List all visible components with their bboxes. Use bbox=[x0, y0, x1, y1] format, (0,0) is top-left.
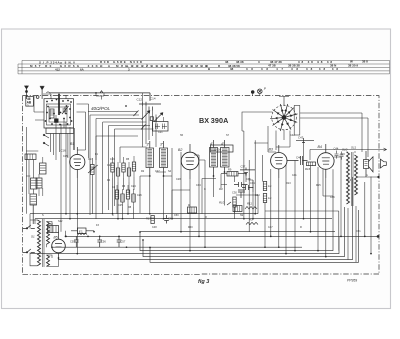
svg-text:Ω: Ω bbox=[27, 103, 29, 107]
IF transformer 4' bbox=[210, 140, 218, 176]
resistor R11 (wirewound zigzag) bbox=[245, 202, 257, 210]
wire: top feed lines bbox=[96, 93, 368, 157]
wire: indicator connections bbox=[242, 106, 368, 153]
wire: B+ bus y232 bbox=[140, 231, 335, 233]
svg-text:B1: B1 bbox=[70, 142, 74, 146]
wire: return loop y256.6 bbox=[143, 207, 345, 257]
svg-text:C25: C25 bbox=[118, 204, 123, 207]
capacitor C49 bbox=[164, 215, 173, 224]
dial lamp P bbox=[251, 87, 266, 95]
aerial input bandfilter (coil box) bbox=[44, 94, 74, 128]
svg-text:C: C bbox=[204, 188, 206, 191]
valve B2 bbox=[178, 144, 199, 179]
resistor group R4-R7 / C18-C22 bbox=[111, 156, 136, 182]
svg-text:C57: C57 bbox=[121, 240, 126, 244]
svg-text:C15: C15 bbox=[63, 155, 68, 158]
IF transformer 4'' bbox=[221, 140, 230, 172]
fuse F2 bbox=[71, 228, 94, 235]
svg-text:3′: 3′ bbox=[147, 143, 150, 147]
svg-text:R10: R10 bbox=[219, 201, 225, 205]
mains transformer T1 secondary HT bbox=[47, 222, 50, 245]
valve B4 bbox=[318, 144, 346, 178]
wire: transformer connections bbox=[30, 220, 94, 266]
mains switch SK2 bbox=[23, 225, 35, 253]
wire: HT bus y214 bbox=[30, 213, 258, 215]
coil S2 bbox=[50, 109, 54, 118]
wire: return loop y259.6 bbox=[59, 177, 353, 260]
wire: bandswitch routing loops bbox=[90, 115, 154, 219]
svg-text:B2: B2 bbox=[178, 148, 182, 152]
svg-text:C44: C44 bbox=[334, 147, 339, 151]
rectifier valve B5 bbox=[52, 233, 66, 258]
svg-text:S11: S11 bbox=[351, 146, 356, 150]
svg-text:C28: C28 bbox=[176, 178, 181, 181]
mains transformer T1 heater winding bbox=[31, 235, 50, 267]
svg-text:C34: C34 bbox=[196, 184, 201, 187]
svg-text:C27: C27 bbox=[155, 170, 160, 173]
svg-text:C46: C46 bbox=[330, 196, 335, 199]
tuning gang C12/C14 bbox=[134, 97, 163, 130]
svg-text:B3: B3 bbox=[269, 148, 273, 152]
capacitor C29/C30 pair bbox=[219, 182, 248, 198]
svg-text:C17: C17 bbox=[88, 158, 93, 161]
svg-text:R14: R14 bbox=[346, 178, 352, 182]
svg-text:R16: R16 bbox=[305, 167, 311, 171]
resistor R17 bbox=[146, 216, 154, 224]
svg-text:m: m bbox=[366, 174, 368, 177]
svg-text:BX 390A: BX 390A bbox=[199, 116, 229, 125]
label 40 Ohm/POL bbox=[88, 106, 137, 111]
svg-text:38: 38 bbox=[230, 67, 234, 71]
resistor R3 zigzag bbox=[246, 218, 258, 225]
svg-text:C50: C50 bbox=[174, 214, 179, 217]
resistor R9 network bbox=[221, 168, 246, 177]
svg-text:C16: C16 bbox=[61, 149, 67, 153]
title block text row 1 bbox=[39, 60, 368, 65]
IF transformer 3'' bbox=[160, 141, 168, 176]
valve B3 bbox=[269, 145, 287, 178]
resistor R19 (WW box) bbox=[233, 206, 242, 212]
wire: output secondary return bbox=[265, 211, 339, 251]
svg-text:R: R bbox=[188, 203, 190, 207]
svg-text:40Ω/POL: 40Ω/POL bbox=[91, 106, 111, 111]
svg-text:R9: R9 bbox=[228, 168, 232, 172]
speaker return wire bbox=[357, 176, 379, 178]
svg-text:38 30 9: 38 30 9 bbox=[348, 64, 358, 68]
resistor R16 bbox=[305, 162, 316, 171]
junction blobs in coil box bbox=[45, 99, 73, 126]
trimmer C6 bbox=[62, 106, 69, 114]
aerial terminal A bbox=[36, 86, 44, 99]
svg-text:R13: R13 bbox=[286, 182, 291, 185]
svg-text:C33: C33 bbox=[255, 194, 260, 197]
output transformer S10/S11 bbox=[342, 146, 358, 207]
svg-text:C52: C52 bbox=[48, 222, 53, 226]
capacitor C52/C53 bbox=[48, 222, 59, 233]
valve B1 bbox=[61, 142, 96, 178]
svg-text:C42: C42 bbox=[290, 134, 295, 137]
svg-text:C24: C24 bbox=[131, 185, 136, 188]
svg-text:R: R bbox=[205, 216, 207, 219]
IF transformer top strip bbox=[211, 145, 234, 152]
svg-text:C56: C56 bbox=[101, 240, 106, 244]
wire: return loop y253.6 bbox=[30, 237, 339, 254]
resistor R18 (WW box) bbox=[188, 203, 197, 213]
title block text row 3 bbox=[55, 67, 338, 71]
terminal strip 46 AB bbox=[26, 97, 34, 108]
svg-text:B5: B5 bbox=[54, 236, 58, 240]
svg-text:C51: C51 bbox=[356, 230, 361, 233]
wire: return loop y262.3 bbox=[150, 210, 359, 262]
wire: extra routing segments bbox=[30, 93, 356, 224]
wire: vertical drops centre section bbox=[150, 132, 258, 251]
capacitor C55 bbox=[70, 236, 79, 247]
capacitor C43 bbox=[296, 136, 314, 143]
code PP959 bbox=[347, 279, 357, 283]
svg-text:B: B bbox=[208, 67, 210, 71]
svg-text:R20: R20 bbox=[188, 226, 193, 229]
resistor R13 (1w) bbox=[263, 194, 272, 203]
svg-text:38 38 38: 38 38 38 bbox=[288, 64, 300, 68]
svg-text:412: 412 bbox=[55, 67, 60, 71]
svg-text:C55: C55 bbox=[70, 240, 75, 244]
wire: HT bus y219 bbox=[35, 218, 332, 220]
svg-text:C48: C48 bbox=[152, 226, 157, 229]
svg-text:C19: C19 bbox=[110, 158, 115, 161]
wire: top horizontal bbox=[47, 91, 151, 94]
capacitor C56 bbox=[97, 236, 106, 247]
wire: vertical drops right section bbox=[244, 131, 371, 262]
resistor R1 (horizontal, left) bbox=[25, 154, 36, 160]
chassis boundary (dash-dot) bbox=[23, 96, 380, 275]
svg-text:38 8: 38 8 bbox=[362, 60, 368, 64]
svg-text:C14: C14 bbox=[150, 97, 156, 101]
misc component labels bbox=[42, 131, 361, 233]
svg-text:B4: B4 bbox=[318, 145, 322, 149]
model label BX 390A bbox=[199, 116, 229, 125]
volume pot R10 bbox=[219, 197, 236, 213]
svg-text:38 38 98 38: 38 38 98 38 bbox=[298, 60, 332, 64]
label cluster annotations bbox=[107, 164, 136, 209]
capacitor C57 bbox=[117, 236, 126, 247]
svg-text:МЛЩЖЖЖЙЖЖЖЖЖЖЙЖЖМЖЖ: МЛЩЖЖЖЙЖЖЖЖЖЖЙЖЖМЖЖ bbox=[116, 64, 208, 68]
capacitor C4 (left column) bbox=[31, 160, 38, 195]
svg-text:C26: C26 bbox=[137, 194, 142, 197]
loudspeaker bbox=[364, 151, 374, 177]
wire: gang drops bbox=[143, 93, 157, 147]
oscillator padder box bbox=[153, 117, 169, 131]
wire: ground bus y247 bbox=[52, 246, 302, 248]
capacitor C37 bbox=[240, 165, 255, 177]
svg-text:C21: C21 bbox=[158, 131, 163, 134]
earth terminal bbox=[25, 86, 29, 100]
svg-text:4′: 4′ bbox=[210, 142, 213, 146]
svg-text:S1: S1 bbox=[31, 235, 35, 239]
svg-text:C43: C43 bbox=[298, 136, 304, 140]
svg-text:C30: C30 bbox=[232, 191, 237, 195]
wire: coil box leads bbox=[34, 94, 66, 112]
tuning indicator tube B6 (top view) bbox=[270, 96, 297, 131]
svg-text:C37: C37 bbox=[241, 165, 246, 169]
IF transformer 3' bbox=[146, 141, 154, 176]
svg-text:C31: C31 bbox=[250, 181, 255, 185]
oscillator coil S5/S6 bbox=[36, 157, 46, 196]
capacitor C31/C33 bbox=[242, 180, 255, 192]
resistor R12 (1w) bbox=[263, 182, 272, 191]
svg-text:S12: S12 bbox=[58, 220, 63, 223]
svg-text:C36: C36 bbox=[246, 178, 251, 181]
wire: return loop y250.6 bbox=[140, 196, 333, 251]
mains transformer T1 primary bbox=[38, 219, 45, 267]
wire: left column risers bbox=[26, 127, 38, 214]
resistor R2 (left column) bbox=[30, 194, 37, 224]
svg-text:PP959: PP959 bbox=[347, 279, 357, 283]
wave band switch SK1 bbox=[43, 115, 74, 160]
wire: speaker feed line bbox=[310, 148, 387, 160]
wire: vertical drops left section bbox=[61, 122, 134, 254]
svg-text:C47: C47 bbox=[268, 226, 273, 229]
svg-text:R15: R15 bbox=[316, 184, 321, 187]
svg-text:C12: C12 bbox=[137, 98, 143, 102]
svg-text:C45: C45 bbox=[340, 152, 345, 156]
potentiometer P1 bbox=[88, 158, 98, 214]
svg-text:C41: C41 bbox=[292, 174, 297, 177]
speaker icon (external) bbox=[380, 159, 386, 168]
title block text row 2 bbox=[30, 64, 358, 68]
wire: B+ bus y236 bbox=[66, 235, 380, 237]
title block table lines bbox=[18, 60, 390, 74]
wire junction dots bbox=[51, 92, 372, 259]
svg-text:R: R bbox=[300, 226, 302, 229]
capacitor C40 bbox=[287, 156, 308, 166]
svg-text:C18: C18 bbox=[107, 164, 112, 167]
svg-text:C40: C40 bbox=[296, 156, 302, 160]
svg-text:R11: R11 bbox=[247, 202, 252, 206]
svg-text:fig 3: fig 3 bbox=[198, 279, 209, 285]
caption fig 3 bbox=[198, 279, 209, 285]
resistor group R8/C23-C26 (lower) bbox=[115, 185, 135, 207]
